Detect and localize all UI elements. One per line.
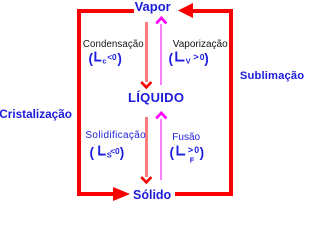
svg-text:(: ( [169, 51, 174, 66]
svg-text:): ) [119, 145, 124, 160]
svg-text:): ) [117, 51, 122, 66]
label: Vaporizacao [173, 39, 228, 50]
inner arrow: fusion magenta chevron head [154, 111, 169, 123]
svg-text:>: > [193, 52, 199, 62]
arrowhead into Vapor (left-pointing) [178, 3, 194, 19]
formula: Lf > 0 [170, 144, 210, 165]
svg-text:V: V [185, 56, 190, 65]
inner arrow: fusion up shaft [160, 119, 162, 180]
wire: outer left bottom horizontal [77, 192, 115, 196]
wire: outer left top horizontal (Vapor to left corner) [77, 9, 134, 13]
inner arrow: condensation red chevron head [139, 80, 154, 92]
node: LIQUIDO [128, 90, 184, 105]
svg-text:>: > [187, 145, 193, 155]
svg-text:): ) [199, 145, 204, 160]
label: Cristalizacao [0, 107, 72, 121]
node: Vapor [135, 0, 171, 14]
label: Condensacao [83, 39, 144, 50]
svg-text:(: ( [90, 145, 95, 160]
svg-text:F: F [189, 155, 194, 164]
svg-text:0: 0 [194, 145, 199, 155]
inner arrow: solidification down shaft [145, 117, 148, 177]
svg-text:c: c [102, 57, 106, 66]
label: Solidificacao [85, 130, 146, 141]
arrowhead into Solido (right-pointing) [113, 186, 131, 202]
svg-text:<0: <0 [107, 52, 117, 62]
svg-text:<0: <0 [110, 146, 120, 156]
label: Sublimacao [240, 70, 304, 82]
inner arrow: condensation down shaft [145, 22, 148, 82]
svg-text:(: ( [89, 51, 94, 66]
formula: Lc < 0 [89, 50, 125, 67]
formula: Ls < 0 [90, 144, 130, 161]
wire: outer left vertical [77, 9, 81, 196]
wire: outer right vertical [229, 9, 233, 196]
wire: outer right top horizontal [192, 9, 233, 13]
inner arrow: vaporization magenta chevron head [154, 16, 169, 28]
formula: Lv > 0 [169, 50, 213, 67]
inner arrow: vaporization up shaft [160, 24, 162, 85]
node: Solido [133, 188, 171, 202]
svg-text:(: ( [170, 145, 175, 160]
label: Fusao [172, 132, 200, 143]
svg-text:): ) [204, 51, 209, 66]
inner arrow: solidification red chevron head [139, 175, 154, 187]
wire: outer right bottom horizontal [175, 192, 233, 196]
